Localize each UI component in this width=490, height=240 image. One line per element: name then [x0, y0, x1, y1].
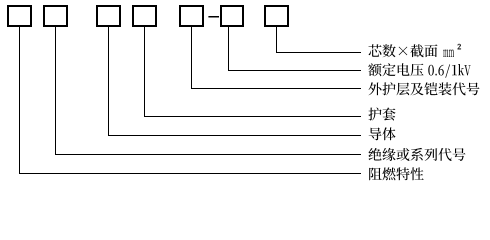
label text "护套"	[369, 108, 396, 121]
wire from box 1 to label "阻燃特性"	[20, 27, 362, 174]
wire from box 2 to label "绝缘或系列代号"	[56, 27, 362, 155]
dash between box 5 and box 6	[208, 16, 219, 18]
wire from box 5 to label "外护层及铠装代号"	[192, 27, 362, 89]
wire from box 4 to label "护套"	[145, 27, 362, 117]
label text "芯数×截面 mm²"	[369, 44, 455, 57]
label text "外护层及铠装代号"	[369, 82, 480, 95]
box 1 (阻燃特性)	[8, 6, 31, 26]
superscript 2 of mm2	[458, 44, 461, 49]
wire from box 7 to label "芯数×截面 mm²"	[277, 27, 362, 53]
label text "阻燃特性"	[369, 167, 424, 180]
label text "绝缘或系列代号"	[369, 148, 466, 161]
wire from box 6 to label "额定电压 0.6/1kV"	[229, 27, 362, 71]
label text "额定电压 0.6/1kV"	[368, 63, 470, 78]
wire from box 3 to label "导体"	[109, 27, 362, 136]
box 2 (绝缘或系列代号)	[44, 6, 67, 26]
box 4 (护套)	[133, 6, 156, 26]
box 5 (外护层及铠装代号)	[180, 6, 203, 26]
box 3 (导体)	[97, 6, 120, 26]
box 6 (额定电压)	[221, 6, 243, 26]
box 7 (芯数×截面)	[265, 6, 288, 26]
cable type designation diagram	[0, 0, 490, 188]
label text "导体"	[369, 127, 396, 140]
